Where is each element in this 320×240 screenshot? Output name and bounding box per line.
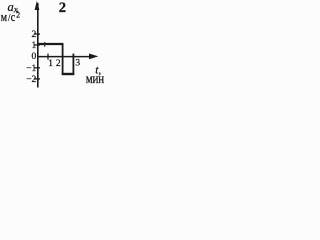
- y tick a=1: [34, 44, 40, 46]
- x-axis: [37, 56, 92, 58]
- step drop at t=2: [62, 43, 64, 75]
- y tick a=-1: [34, 67, 40, 69]
- y-axis arrowhead: [35, 1, 40, 10]
- y tick a=-2: [34, 78, 40, 80]
- svg-text:2: 2: [56, 59, 61, 69]
- svg-text:2: 2: [32, 30, 37, 40]
- step bottom a=-1.5 from t=2 to t=3: [62, 73, 74, 75]
- svg-text:3: 3: [75, 58, 80, 68]
- svg-text:1: 1: [48, 59, 53, 69]
- svg-text:с: с: [11, 11, 15, 24]
- small tick on step line at t=1: [44, 42, 46, 47]
- x-axis arrowhead: [89, 54, 98, 60]
- axis title m/s^2: [1, 11, 15, 24]
- svg-text:1: 1: [32, 41, 37, 51]
- svg-text:м: м: [1, 11, 7, 24]
- y-axis: [37, 3, 39, 88]
- svg-text:−1: −1: [26, 64, 36, 74]
- axis title min: [86, 71, 105, 86]
- step rise at t=3 with tick above axis: [72, 54, 74, 75]
- y tick a=2: [34, 33, 40, 35]
- svg-text:−2: −2: [26, 75, 36, 85]
- svg-text:2: 2: [16, 11, 20, 20]
- svg-text:мин: мин: [86, 71, 105, 86]
- svg-text:0: 0: [32, 52, 37, 62]
- step line a=1 from t=0 to t=2: [38, 43, 63, 45]
- x tick t=1: [47, 54, 49, 60]
- svg-text:2: 2: [59, 0, 67, 16]
